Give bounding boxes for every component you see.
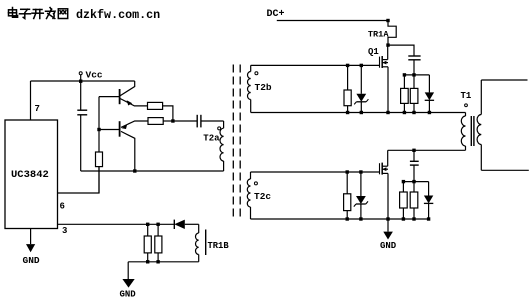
wire: Q1 drain lead [387,45,389,60]
wire: R6 bottom lead [347,106,349,113]
resistor R4 sense [144,236,151,253]
wire: C3 bottom lead [413,60,415,75]
transistor Q2 N-MOSFET [379,163,381,174]
wire: pin 3 wire [58,223,175,225]
svg-text:Vcc: Vcc [86,69,103,80]
node: T2b phase dot [255,72,258,75]
inductor T2c secondary winding [250,172,252,179]
capacitor C2 coupling [173,120,197,122]
inductor T2a primary winding [223,121,225,128]
node: junction Vcc rail [79,80,82,83]
wire: Q2 drain rail to T1 [388,149,466,151]
node: junction R9 top [346,170,349,173]
wire: R11 bottom lead [413,208,415,219]
capacitor C1 Vcc decoupling [80,81,82,110]
node: junction row left [403,73,406,76]
wire: lower snubber junction row [403,181,428,183]
wire: R1 to junction [163,106,173,121]
wire: Z1 bottom lead [360,102,362,113]
node: junction Z1 bottom [360,111,363,114]
wire: R5 bottom lead [157,253,159,262]
wire: T2b top wire / Q1 gate line [251,64,380,66]
svg-text:T2a: T2a [203,134,220,144]
wire: R9 top lead [346,172,348,194]
wire: C4 top lead [413,150,415,161]
wire: NPN emitter [120,99,147,106]
ground: GND arrow Q2 source [387,219,389,232]
node: junction R7 bottom [403,111,406,114]
wire: R7 top lead [403,75,405,89]
wire: header logo text (Chinese) [9,8,68,19]
wire: R6 top lead [347,65,349,90]
node: junction C4 top [412,149,415,152]
wire: R9 bottom lead [346,211,348,219]
wire: NPN collector [120,81,134,96]
wire: Q2 source lead [387,173,389,219]
diode D3 snubber [424,196,433,204]
node: junction Q1 drain [386,43,389,46]
resistor R8 snubber [410,88,418,103]
node: junction R6 top [346,64,349,67]
wire: pin 7 lead (Vcc) [30,81,32,120]
svg-text:T2c: T2c [254,191,271,202]
wire: upper source rail [251,112,466,114]
node: junction R5 top [156,223,159,226]
wire: DC+ rail [277,20,388,22]
wire: R10 bottom lead [402,208,404,219]
wire: T2 core dashed line right [239,65,241,219]
inductor T1 secondary winding [480,80,482,115]
node: junction R6 bottom [346,111,349,114]
wire: PNP collector [121,131,135,171]
node: junction row cap [412,73,415,76]
resistor R9 gate [344,194,351,211]
resistor R11 snubber [410,192,418,208]
node: junction R11 bottom [412,217,415,220]
wire: Q1 source lead [387,67,389,113]
svg-text:GND: GND [120,290,137,298]
wire: T1 secondary top output [481,79,527,81]
node: junction emitters [171,119,174,122]
node: junction Z1 top [360,64,363,67]
wire: T1 core bar right [473,116,475,146]
wire: D3 bottom lead [428,203,430,219]
wire: R11 top lead [413,182,415,192]
node: junction PNP collector to rail [133,169,136,172]
inductor TR1B current transformer secondary [198,224,200,233]
wire: pin6 resistor column upper [98,97,100,130]
wire: R3 to junction [163,120,173,122]
wire: T1 core bar left [470,116,472,146]
node: junction base drive [97,128,100,131]
wire: T2c top wire / Q2 gate line [251,171,380,173]
inductor T2b secondary winding [250,65,252,71]
svg-text:T2b: T2b [255,82,272,93]
node: junction R9 bottom [346,217,349,220]
svg-text:GND: GND [23,255,40,266]
wire: pin 6 lead (output) [58,167,100,193]
resistor R10 snubber [400,192,408,208]
svg-text:TR1A: TR1A [368,30,389,40]
wire: Q2 drain lead [387,150,389,166]
diode D2 snubber [425,92,434,100]
wire: T2 core dashed line left [232,65,234,219]
wire: Z1 top lead [360,65,362,93]
resistor R6 gate [344,90,351,106]
wire: D3 top lead [428,182,430,196]
wire: C4 bottom lead [413,165,415,182]
node: junction Q2 source rail [386,217,389,220]
wire: PNP base wire [99,129,120,131]
wire: R10 top lead [402,182,404,192]
wire: TR1B core bar [205,230,207,256]
ground: IC GND arrow [30,229,32,245]
svg-text:6: 6 [60,202,65,212]
node: T2a phase dot [218,127,221,130]
svg-text:3: 3 [62,226,67,236]
svg-text:TR1B: TR1B [208,241,230,251]
svg-text:Q1: Q1 [368,47,379,57]
svg-text:T1: T1 [461,91,472,101]
wire: lower source rail [251,218,430,220]
wire: R4 bottom lead [147,253,149,262]
node: junction Z2 bottom [359,217,362,220]
capacitor C3 snubber [408,55,420,57]
diode D1 pointing left [173,220,175,229]
wire: D2 top lead [428,75,430,93]
svg-text:7: 7 [35,104,40,114]
wire: R8 bottom lead [413,103,415,112]
wire: R8 top lead [413,75,415,89]
diode Z1 zener gate clamp [356,94,366,102]
wire: Z2 bottom lead [360,204,362,219]
transistor Q4 PNP base bar [119,121,121,137]
node: junction Z2 top [359,170,362,173]
op-amp U1 UC3842 PWM controller IC box [5,120,58,229]
resistor R7 snubber [401,88,409,103]
inductor TR1A current transformer primary [388,21,396,46]
resistor R5 sense [155,236,162,253]
ground: GND arrow bottom left [127,262,129,279]
node: junction Q1 source rail [386,111,389,114]
svg-text:DC+: DC+ [267,9,285,20]
transistor Q3 NPN base bar [119,89,121,104]
wire: R7 bottom lead [403,103,405,112]
transistor Q1 N-MOSFET [379,57,381,68]
resistor R1 emitter top [148,102,163,109]
resistor R2 base drive [96,152,103,167]
inductor T1 primary winding [465,113,467,117]
node: junction lower row left [402,180,405,183]
wire: below R2 [98,167,100,193]
node: junction R10 bottom [402,217,405,220]
wire: Vcc rail pin7 to NPN collector [31,80,135,82]
svg-text:UC3842: UC3842 [11,169,49,181]
node: T2c phase dot [254,182,257,185]
wire: TR1B bottom return wire [128,261,199,263]
wire: D2 bottom lead [428,100,430,112]
wire: snubber junction row [404,74,429,76]
wire: T1 secondary bottom output [481,169,529,171]
svg-text:dzkfw.com.cn: dzkfw.com.cn [76,8,160,22]
wire: R5 lead [157,224,159,236]
resistor R3 emitter bottom [148,118,163,125]
node: junction R8 bottom [412,111,415,114]
wire: left ground rail [81,170,224,172]
node: junction D2 bottom [428,111,431,114]
node: junction TR1A top [386,19,389,22]
node Vcc terminal [79,72,82,75]
wire: R4 lead [147,224,149,236]
wire: NPN base wire [99,96,120,98]
node: junction R4 bottom [146,260,149,263]
node: T1 phase dot [465,104,468,107]
capacitor C4 snubber [410,160,419,162]
wire: PNP emitter [121,121,148,127]
node: junction lower row cap [412,180,415,183]
node: junction R5 bottom [156,260,159,263]
node: junction R4 top [146,223,149,226]
svg-text:GND: GND [380,241,397,251]
wire: Z2 top lead [360,172,362,196]
diode Z2 zener gate clamp [356,196,366,204]
node: junction D3 bottom [427,217,430,220]
wire: drain to C3 [388,45,414,56]
